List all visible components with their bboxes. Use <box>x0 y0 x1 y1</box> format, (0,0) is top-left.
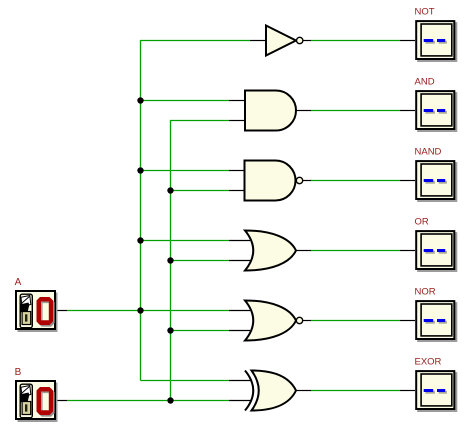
gate NOT U1 <box>266 26 303 56</box>
node: B-OR junction <box>167 257 173 263</box>
gate OR U4 <box>245 231 296 271</box>
LED display NOR <box>416 301 457 342</box>
svg-text:OR: OR <box>415 217 429 228</box>
pin: OR output <box>296 250 311 252</box>
pin: EXOR input top <box>229 380 251 382</box>
wire: A bus to OR top input <box>141 240 230 242</box>
pin: AND input bottom <box>229 120 245 122</box>
svg-text:EXOR: EXOR <box>415 357 442 368</box>
gate NAND U3 <box>245 161 303 201</box>
gate AND U2 <box>245 91 296 131</box>
node: B-EXOR junction <box>167 397 173 403</box>
pin stubs (black) <box>56 41 415 401</box>
wire: OR output net <box>311 250 400 252</box>
wire: switch A output to NOR top input <box>67 310 229 312</box>
pin: AND display input <box>400 110 415 112</box>
digit 0 on switch A <box>38 299 55 327</box>
LED display EXOR <box>416 371 457 412</box>
junction dots on net A bus <box>137 97 173 403</box>
pin: OR input top <box>229 240 250 242</box>
wire: NOT output net <box>311 40 400 42</box>
pin: AND input top <box>229 100 245 102</box>
wire: A bus to AND top input <box>141 100 230 102</box>
switch B <box>16 381 58 422</box>
pin: NOR output <box>303 320 311 322</box>
wire: NOR output net <box>311 320 400 322</box>
node: B-NOR junction <box>167 327 173 333</box>
wire: AND output net <box>311 110 400 112</box>
svg-text:NOR: NOR <box>415 287 436 298</box>
svg-text:AND: AND <box>415 77 435 88</box>
wire: B bus to NAND bottom input <box>171 190 230 192</box>
svg-text:NOT: NOT <box>415 7 435 18</box>
digit 0 on switch B <box>38 389 55 417</box>
pin: EXOR display input <box>400 390 415 392</box>
pin: switch B output <box>56 400 67 402</box>
wire: B bus to NOR bottom input <box>171 330 230 332</box>
pin: NOT display input <box>400 40 415 42</box>
pin: NAND display input <box>400 180 415 182</box>
node: A-AND junction <box>137 97 143 103</box>
wire: B bus to OR bottom input <box>171 260 230 262</box>
pin: NOR input top <box>229 310 250 312</box>
wire: net B vertical bus x=170 <box>171 121 230 401</box>
pin: NAND input bottom <box>229 190 245 192</box>
svg-text:NAND: NAND <box>415 147 442 158</box>
LED display OR <box>416 231 457 272</box>
wire: A bus to NAND top input <box>141 170 230 172</box>
gate NOR U5 <box>245 301 303 341</box>
pin: OR display input <box>400 250 415 252</box>
pin: NOR display input <box>400 320 415 322</box>
pin: EXOR input bottom <box>229 400 251 402</box>
pin: NAND input top <box>229 170 245 172</box>
node: A-NOR junction <box>137 307 143 313</box>
switch A <box>16 291 58 332</box>
gate EXOR U6 <box>245 371 296 411</box>
node: A-OR junction <box>137 237 143 243</box>
pin: switch A output <box>56 310 67 312</box>
wire: switch B output to EXOR bottom input <box>67 400 229 402</box>
pin: NOT output <box>303 40 311 42</box>
svg-text:A: A <box>15 277 22 288</box>
LED display NOT <box>416 21 457 62</box>
LED display AND <box>416 91 457 132</box>
pin: NOT input <box>250 40 266 42</box>
wire: A bus to EXOR top input <box>141 380 230 382</box>
wire: NAND output net <box>311 180 400 182</box>
pin: OR input bottom <box>229 260 250 262</box>
svg-text:B: B <box>15 367 22 378</box>
pin: NAND output <box>303 180 311 182</box>
pin: EXOR output <box>296 390 311 392</box>
node: A-NAND junction <box>137 167 143 173</box>
pin: NOR input bottom <box>229 330 250 332</box>
node: B-NAND junction <box>167 187 173 193</box>
pin: AND output <box>296 110 311 112</box>
wire: EXOR output net <box>311 390 400 392</box>
LED display NAND <box>416 161 457 202</box>
wire: net A vertical bus x=140 <box>141 41 251 381</box>
